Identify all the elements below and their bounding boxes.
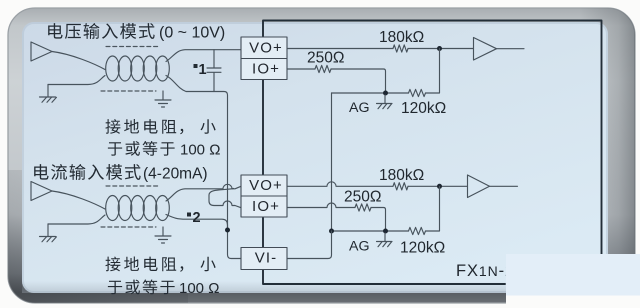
wire IO+2 to 250 with hop: [287, 203, 355, 208]
wire lower into cable ch1: [48, 76, 105, 85]
AG ground symbol ch1: [377, 95, 393, 104]
resistor 120k ch1: [409, 89, 426, 96]
label *1: [194, 64, 198, 68]
note grounding resistance line2 ch1: [108, 142, 122, 156]
source ground ch2: [40, 236, 56, 238]
svg-text:1: 1: [199, 62, 207, 78]
op-amp U1: [474, 38, 497, 61]
label *2: [187, 213, 191, 217]
shield ground ch2: [155, 227, 171, 243]
svg-text:120kΩ: 120kΩ: [400, 240, 445, 257]
note grounding resistance line2 ch2: [108, 281, 122, 295]
wire cable lower to VI- vertical ch1: [166, 76, 241, 259]
op-amp U2: [468, 175, 490, 198]
wire upper into cable ch1: [52, 52, 105, 70]
svg-text:VO+: VO+: [249, 40, 283, 57]
node ch1: [437, 46, 442, 51]
AG rail down: [331, 93, 333, 231]
svg-text:(4-20mA): (4-20mA): [143, 166, 208, 183]
resistor 180k ch2: [393, 183, 408, 190]
terminal box VO+ y175: [241, 175, 287, 196]
jumper loop VO+ to IO+ ch2: [209, 188, 241, 207]
op-amp U2 output wire: [490, 185, 518, 187]
title current input mode: [34, 164, 48, 179]
PLC enclosure box: [263, 21, 602, 255]
svg-text:AG: AG: [349, 100, 370, 116]
op-amp U1 output wire: [497, 48, 525, 50]
terminal box IO+ y58.5: [241, 59, 287, 80]
note grounding resistance line1 ch2: [105, 257, 120, 272]
svg-text:IO+: IO+: [252, 198, 280, 215]
wire IO+1 to 250: [287, 68, 315, 70]
capacitor *1: [207, 50, 221, 92]
junction dot ch2 lower / ch1 lower: [225, 228, 230, 233]
rail junction dot: [329, 229, 334, 234]
AG node dot ch2: [383, 229, 388, 234]
svg-text:250Ω: 250Ω: [344, 189, 381, 206]
source transducer triangle ch1: [31, 42, 52, 61]
shield dashed upper ch2: [106, 185, 158, 187]
AG node dot ch1: [383, 91, 388, 96]
twisted pair loops ch2: [106, 196, 120, 221]
AG line ch2 with 120k: [332, 230, 409, 232]
svg-text:(0 ~ 10V): (0 ~ 10V): [159, 25, 225, 42]
svg-text:120kΩ: 120kΩ: [401, 100, 446, 117]
svg-text:100 Ω: 100 Ω: [179, 280, 219, 297]
svg-text:180kΩ: 180kΩ: [379, 167, 424, 184]
svg-text:IO+: IO+: [252, 61, 280, 78]
twisted pair loops ch1: [106, 56, 120, 81]
shield dashed lower ch1: [101, 90, 156, 92]
terminal box VI- y247.5: [241, 248, 287, 270]
source ground ch1: [40, 96, 56, 98]
resistor 250 ch1: [315, 65, 331, 72]
source transducer triangle ch2: [31, 182, 52, 201]
shield ground ch1: [155, 91, 171, 107]
resistor 180k ch1: [393, 45, 408, 52]
wire VO+2 to 180k with hop: [287, 182, 393, 187]
shield dashed lower ch2: [101, 226, 156, 228]
wire lower into cable ch2: [48, 215, 105, 224]
svg-text:AG: AG: [349, 239, 370, 255]
title voltage input mode: [48, 23, 62, 38]
wire cable lower ch2 to junction: [166, 215, 228, 231]
svg-text:VI-: VI-: [255, 250, 277, 267]
svg-text:180kΩ: 180kΩ: [379, 29, 424, 46]
resistor 120k ch2: [409, 227, 426, 234]
terminal box VO+ y37: [241, 37, 287, 59]
svg-text:100 Ω: 100 Ω: [180, 142, 220, 159]
AG line ch1 with 120k: [332, 92, 409, 94]
wire VI- to AG rail: [287, 231, 332, 259]
node ch2: [437, 184, 442, 189]
resistor 250 ch2: [355, 204, 371, 211]
AG ground symbol ch2: [377, 233, 393, 242]
white-out patch bottom right: [506, 254, 640, 296]
wire cable to VO+ ch1: [166, 50, 241, 62]
svg-text:VO+: VO+: [249, 177, 283, 194]
terminal box IO+ y196: [241, 196, 287, 217]
wire VO+1 to 180k: [287, 48, 393, 50]
shield dashed upper ch1: [106, 46, 158, 48]
wire upper into cable ch2: [52, 191, 105, 209]
wire cable to VO+ ch2 (hop over vertical): [166, 184, 241, 201]
note grounding resistance line1 ch1: [105, 119, 120, 134]
svg-text:250Ω: 250Ω: [307, 50, 344, 67]
svg-text:2: 2: [193, 210, 201, 226]
